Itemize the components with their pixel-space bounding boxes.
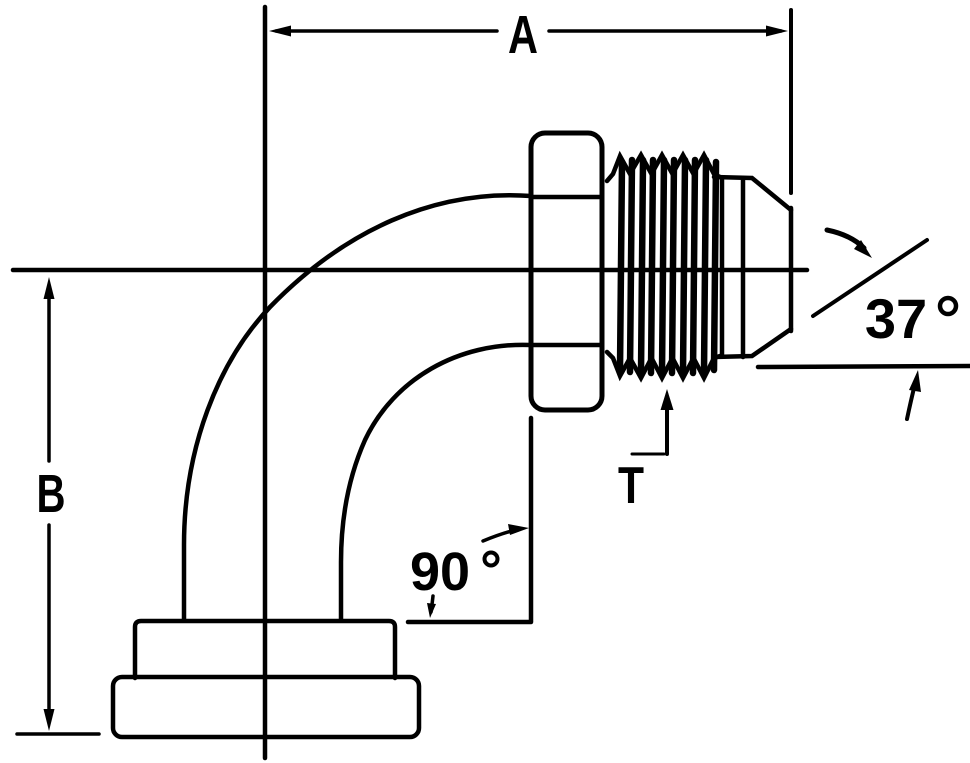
- hex nut upper facet line: [531, 195, 602, 200]
- 37 degree symbol circle: [940, 298, 956, 314]
- T leader horizontal stub: [632, 453, 664, 456]
- dimension B upper line segment with up arrowhead: [44, 277, 55, 461]
- nose right flat: [789, 208, 794, 331]
- dimension A line right segment with right arrowhead: [549, 26, 788, 37]
- nose top edge: [714, 177, 791, 210]
- unthreaded shank vertical line 1: [720, 179, 725, 356]
- 90 upper leader arrow to vertical leg: [483, 524, 529, 541]
- 37 degree reference bottom line: [758, 366, 970, 367]
- 90 degree vertical leg: [529, 418, 534, 621]
- vertical centerline of flange axis: [263, 7, 268, 758]
- 90 degree horizontal leg: [408, 620, 531, 625]
- hex nut body: [531, 133, 602, 410]
- thread bottom crest zigzag: [607, 352, 720, 378]
- unthreaded shank vertical line 2: [741, 178, 746, 357]
- thread flank lines: [620, 160, 716, 373]
- flange upper step: [135, 621, 395, 678]
- T leader vertical line with up arrowhead: [661, 389, 674, 454]
- dimension A line left segment with left arrowhead: [269, 26, 497, 37]
- dimension A right extension line: [789, 10, 793, 193]
- elbow inner contour arc: [341, 345, 531, 620]
- 37 degree flank extension line: [813, 240, 927, 316]
- svg-text:90: 90: [410, 542, 470, 602]
- thread top crest zigzag: [607, 155, 720, 181]
- 90 lower leader arrow to horizontal leg: [427, 596, 436, 618]
- svg-text:A: A: [508, 5, 538, 65]
- 37 reference line up arrow: [907, 370, 921, 419]
- nose bottom edge: [714, 329, 791, 357]
- hex nut lower facet line: [531, 343, 602, 348]
- svg-text:37: 37: [865, 287, 927, 350]
- svg-text:T: T: [618, 457, 644, 515]
- 37 curved leader arrow: [827, 230, 872, 258]
- 90 degree symbol circle: [485, 553, 498, 566]
- svg-text:B: B: [37, 464, 66, 524]
- dimension B bottom tick: [17, 732, 99, 736]
- elbow outer contour arc: [184, 195, 531, 620]
- horizontal centerline of fitting axis: [13, 268, 807, 273]
- flange lower step: [113, 677, 419, 737]
- dimension B lower line segment with down arrowhead: [44, 525, 55, 731]
